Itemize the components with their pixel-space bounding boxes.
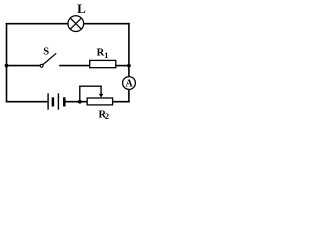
lamp L (circle with X) [68, 16, 84, 32]
resistor R1 [90, 60, 116, 67]
wire: middle row, switch contact to R1 [59, 65, 89, 67]
svg-text:R: R [97, 47, 105, 58]
rheostat R2 box [87, 98, 112, 105]
wire: bottom side, R2 to bottom-right corner [112, 101, 129, 103]
svg-text:1: 1 [104, 51, 108, 60]
svg-text:2: 2 [105, 112, 109, 121]
switch S pivot [40, 64, 43, 67]
wire: bottom side, battery to R2 [65, 101, 87, 103]
node: right junction dot [127, 64, 131, 68]
rheostat slider wire [80, 86, 101, 102]
battery cell 2 short plate [63, 97, 66, 106]
wire: top side, right of lamp [83, 23, 130, 25]
svg-text:S: S [43, 46, 49, 57]
battery cell 2 long plate [57, 93, 59, 109]
wire: right vertical, ammeter to bottom corner [128, 89, 130, 102]
wire: middle row, R1 to right junction [116, 65, 129, 67]
ammeter A [123, 77, 136, 90]
svg-text:A: A [125, 78, 133, 89]
node: rheostat slider junction dot [78, 100, 82, 104]
node: left junction dot [5, 64, 9, 68]
switch S lever [43, 53, 56, 64]
wire: left vertical side [6, 23, 8, 103]
wire: top side, left of lamp [6, 23, 69, 25]
wire: bottom side, left of battery [6, 101, 48, 103]
battery cell 1 short plate [52, 97, 55, 106]
battery cell 1 long plate [47, 93, 49, 109]
wire: right vertical, top segment down to ammeter [128, 23, 130, 77]
rheostat slider arrowhead [99, 94, 103, 98]
svg-text:L: L [77, 1, 86, 16]
wire: middle row, left junction to switch [7, 65, 41, 67]
